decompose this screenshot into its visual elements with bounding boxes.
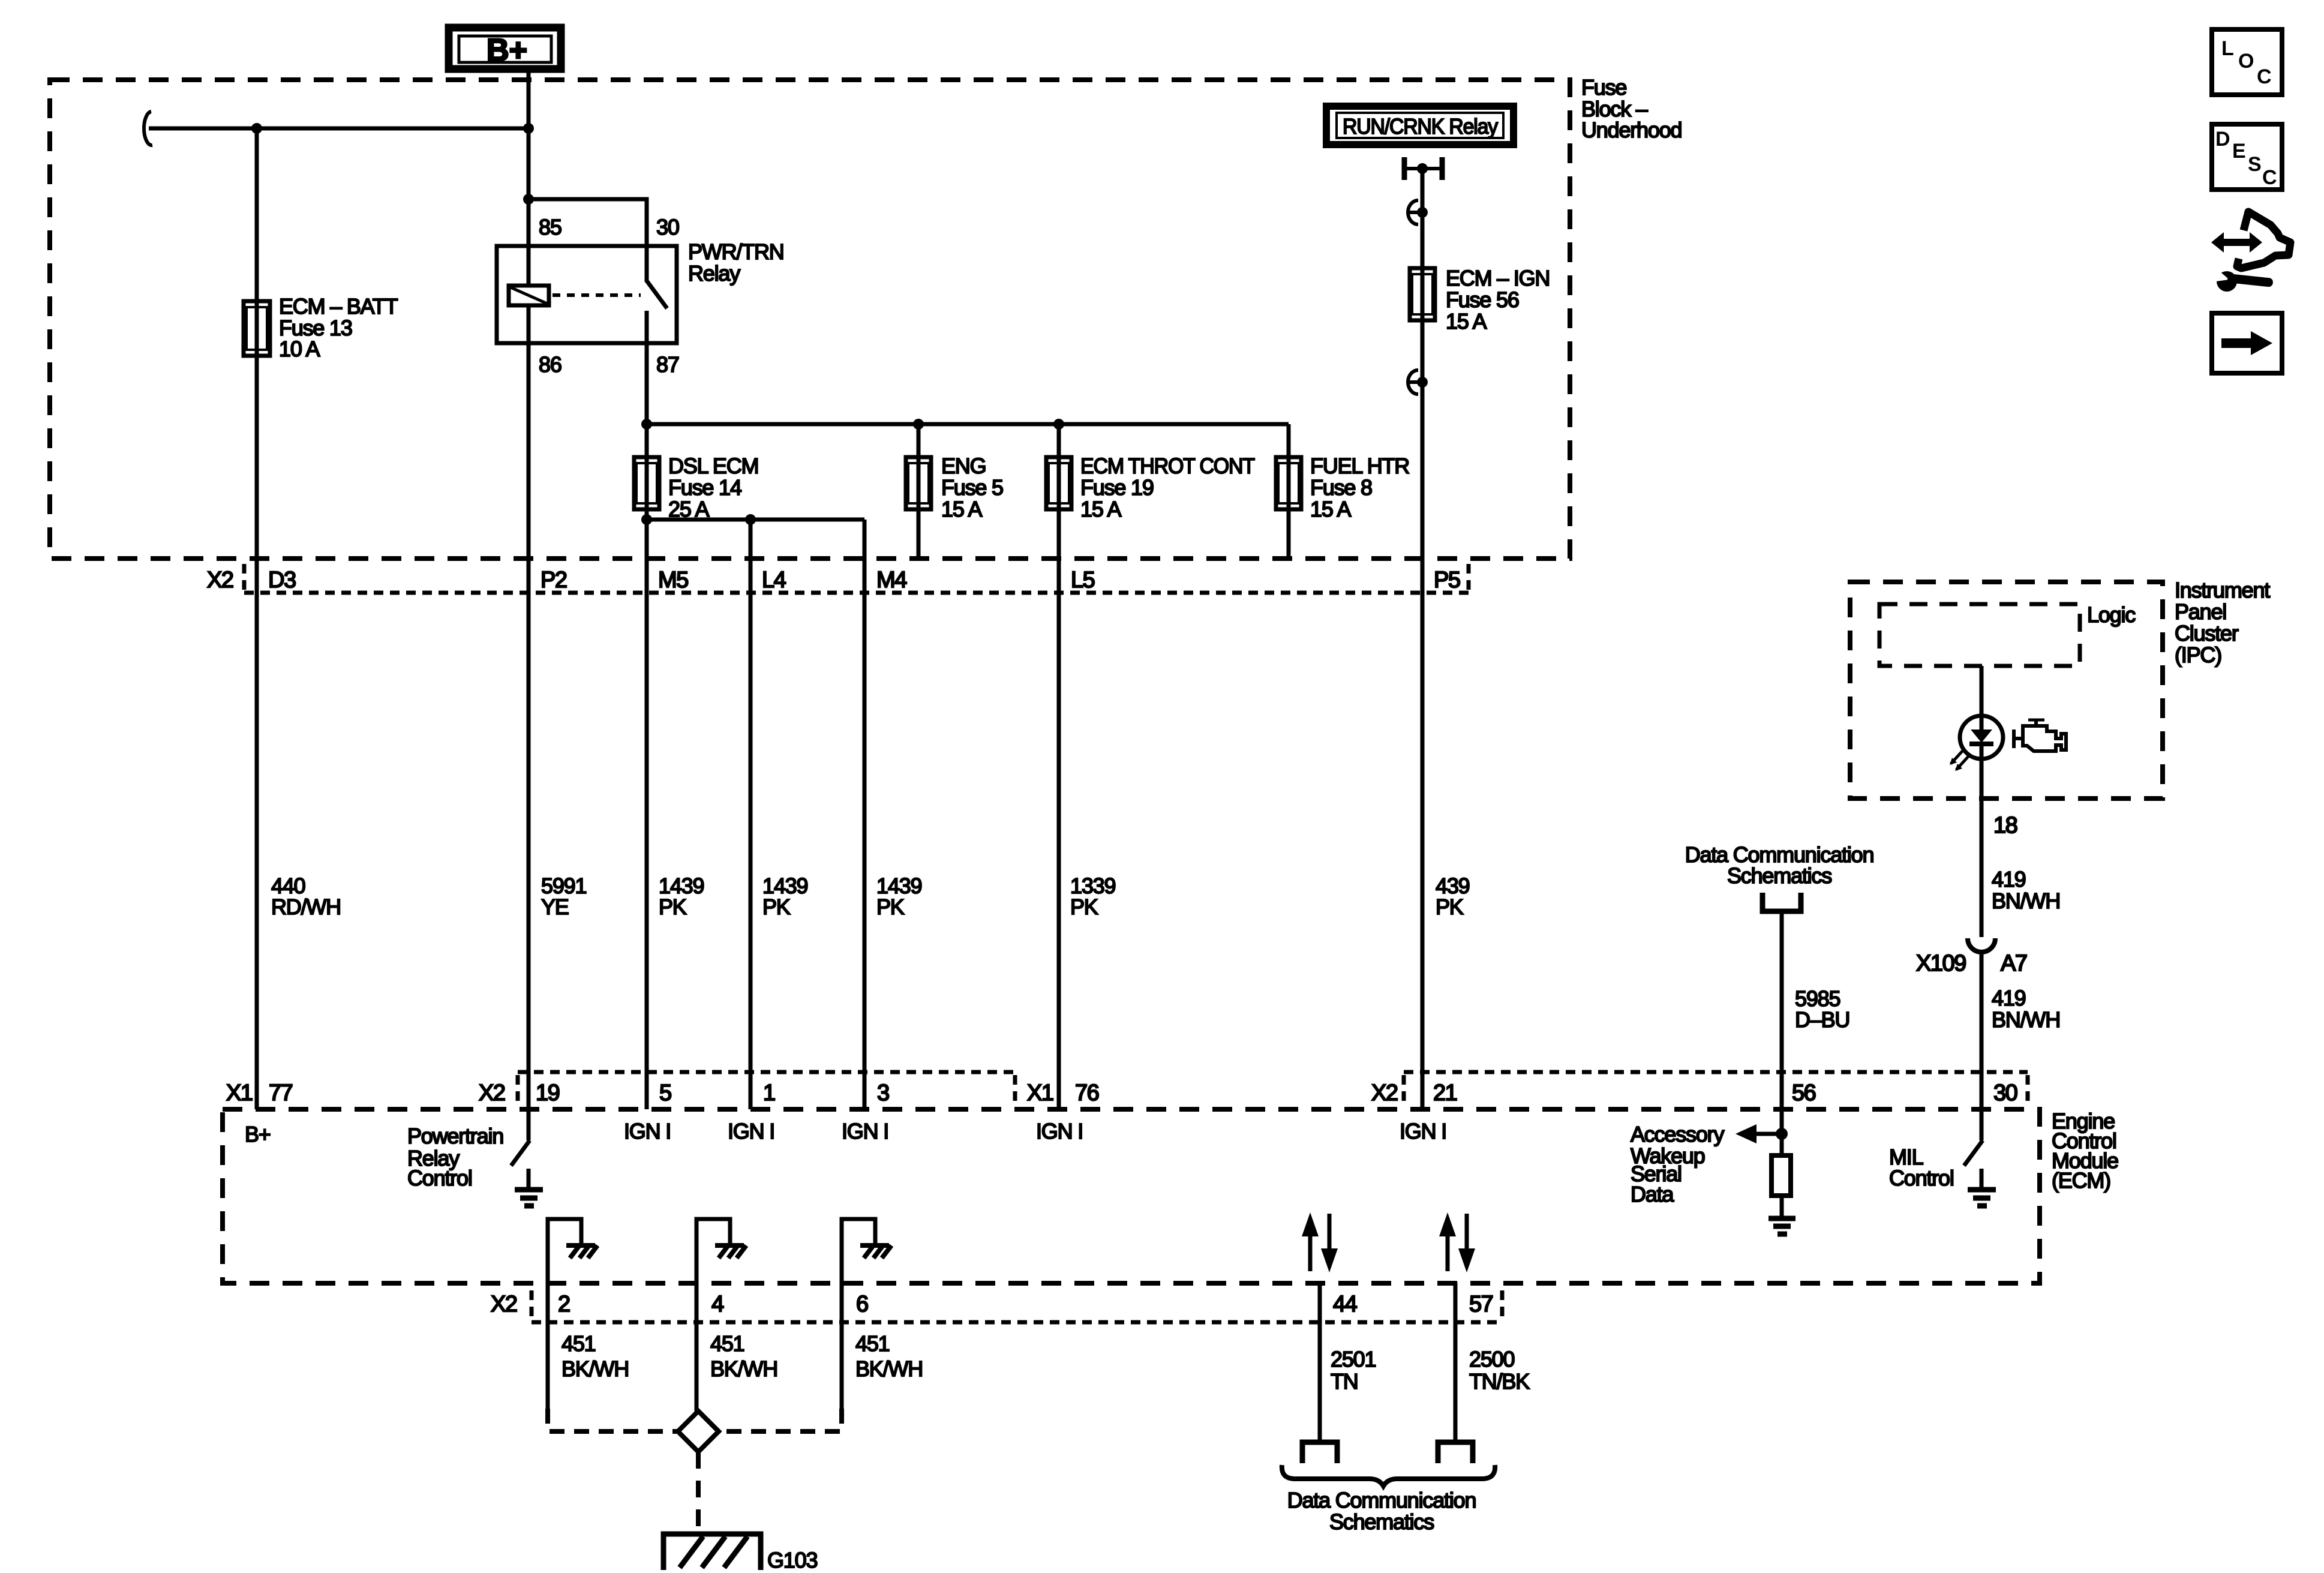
svg-text:A7: A7 (2001, 951, 2027, 976)
svg-text:ECM – BATT: ECM – BATT (279, 294, 398, 319)
wire X109 to ECM pin30 (1980, 952, 1984, 1109)
label wire 1439 PK (M5) (659, 873, 704, 919)
svg-text:X2: X2 (207, 568, 233, 593)
node bus at DSL fuse (641, 419, 652, 430)
svg-text:1: 1 (763, 1080, 775, 1106)
svg-text:Schematics: Schematics (1727, 863, 1831, 888)
svg-text:Data: Data (1631, 1182, 1674, 1206)
wire bus to fuse 14 (645, 424, 649, 459)
relay switch blade (647, 281, 667, 308)
svg-text:Accessory: Accessory (1631, 1122, 1724, 1146)
splice S103 diamond (678, 1411, 719, 1452)
IPC Logic dashed box (1879, 604, 2080, 666)
svg-text:3: 3 (877, 1080, 889, 1106)
svg-text:6: 6 (856, 1292, 868, 1317)
label ENG Fuse 5 15A (941, 454, 1003, 521)
connector tick after P5 (1467, 564, 1471, 591)
resistor pull-down (1771, 1155, 1791, 1196)
svg-text:Control: Control (1889, 1166, 1954, 1190)
wire to fuse 13 (255, 128, 259, 303)
wire relay output down (1421, 169, 1425, 270)
wire coil to pin 86 (527, 305, 531, 343)
node serial data branch (1776, 1128, 1788, 1140)
svg-text:85: 85 (539, 215, 562, 239)
label wire 419 BN/WH upper (1992, 867, 2060, 913)
label Powertrain Relay Control (407, 1124, 503, 1190)
svg-text:Cluster: Cluster (2175, 621, 2239, 646)
svg-text:P5: P5 (1434, 568, 1460, 593)
wire split bar M5 L4 M4 (647, 518, 864, 522)
label ECM-IGN Fuse 56 15A (1446, 266, 1550, 334)
svg-text:ECM THROT CONT: ECM THROT CONT (1080, 454, 1255, 478)
label wire 419 BN/WH lower (1992, 986, 2060, 1032)
label wire 2500 TN/BK (1469, 1347, 1530, 1394)
svg-text:D3: D3 (268, 568, 296, 593)
svg-text:IGN I: IGN I (624, 1119, 671, 1143)
fuse F56 ECM-IGN (1410, 268, 1435, 320)
ECM top connector short-dash line left segment (518, 1070, 1015, 1074)
wire bus to fuse 19 (1057, 424, 1061, 459)
wire L5 THROT fuse down to ECM (1057, 509, 1061, 1109)
node split at M5 (641, 514, 652, 525)
label wire 5985 D-BU (1795, 986, 1849, 1032)
label wire 439 PK (1436, 873, 1470, 919)
ground powertrain driver (515, 1169, 543, 1206)
svg-text:Data Communication: Data Communication (1287, 1488, 1476, 1512)
off-page bracket pin 57 (1438, 1442, 1473, 1463)
svg-text:D–BU: D–BU (1795, 1007, 1849, 1032)
svg-text:PK: PK (659, 894, 687, 919)
svg-text:FUEL HTR: FUEL HTR (1310, 454, 1409, 478)
svg-text:451: 451 (855, 1331, 890, 1356)
connector tick X2 D3 (242, 564, 247, 591)
svg-text:YE: YE (541, 894, 569, 919)
wire fuse feed bus (647, 422, 1289, 427)
label Accessory Wakeup Serial Data (1631, 1122, 1724, 1206)
powertrain relay control switch (511, 1109, 530, 1166)
dashed gather to splice right (720, 1409, 842, 1431)
svg-text:PK: PK (1436, 894, 1464, 919)
relay switch pin30 stub (645, 246, 649, 282)
brace data communication (1282, 1465, 1495, 1486)
ECM top connector short-dash line right segment (1404, 1070, 2028, 1074)
tick after 3 (1013, 1075, 1017, 1107)
ECM bottom connector short-dash line (532, 1320, 1502, 1325)
svg-text:G103: G103 (767, 1548, 817, 1572)
svg-text:X2: X2 (479, 1080, 505, 1106)
ECM internal ground loop pin 6 (842, 1219, 891, 1282)
wire B+ down to bus (527, 69, 531, 199)
label wire 2501 TN (1331, 1347, 1376, 1394)
B+ power symbol (449, 28, 561, 69)
svg-text:TN/BK: TN/BK (1469, 1369, 1530, 1394)
ECM internal ground loop pin 2 (548, 1219, 597, 1282)
svg-text:Relay: Relay (688, 261, 740, 286)
node relay output (1417, 163, 1428, 174)
wire ground pin4 down (695, 1282, 699, 1412)
svg-text:419: 419 (1992, 867, 2026, 891)
svg-text:L4: L4 (762, 568, 786, 593)
svg-text:Underhood: Underhood (1581, 118, 1682, 142)
svg-text:C: C (2257, 65, 2272, 88)
label DSL ECM Fuse 14 25A (668, 454, 758, 521)
svg-text:IGN I: IGN I (1400, 1119, 1446, 1143)
fuse F8 FUEL HTR (1276, 457, 1301, 509)
wire bus corner to fuse 8 (1287, 424, 1291, 459)
MIL control switch (1964, 1109, 1983, 1166)
svg-text:Fuse 8: Fuse 8 (1310, 475, 1372, 500)
label ECM THROT CONT Fuse 19 15A (1080, 454, 1255, 521)
label wire 451 BK/WH (pin2) (562, 1331, 629, 1381)
ground MIL driver (1968, 1169, 1996, 1206)
relay K1 PWR/TRN box (497, 246, 677, 343)
svg-text:PK: PK (762, 894, 791, 919)
wire 2501 pin44 down (1318, 1282, 1322, 1441)
svg-text:Fuse: Fuse (1581, 75, 1626, 100)
fuse F13 ECM-BATT (244, 301, 270, 356)
svg-text:30: 30 (1993, 1080, 2017, 1106)
svg-text:TN: TN (1331, 1369, 1358, 1394)
dashed gather to splice left (548, 1409, 677, 1431)
icon diagnostic wrench arrow (2211, 212, 2290, 292)
wire fuse14 output (645, 509, 649, 520)
node bus at THROT fuse (1053, 419, 1064, 430)
svg-text:18: 18 (1993, 813, 2017, 838)
fuse block underhood dashed box (50, 80, 1570, 559)
label Data Communication Schematics (top) (1685, 842, 1874, 888)
label wire 440 RD/WH (271, 873, 341, 919)
svg-text:IGN I: IGN I (1036, 1119, 1083, 1143)
svg-text:30: 30 (656, 215, 679, 239)
svg-text:Powertrain: Powertrain (407, 1124, 503, 1148)
svg-text:Fuse 56: Fuse 56 (1446, 287, 1519, 312)
wire ground pin6 down (840, 1282, 844, 1409)
svg-text:15 A: 15 A (1446, 309, 1487, 334)
label wire 451 BK/WH (pin4) (710, 1331, 777, 1381)
wire fuse56 down to ECM pin21 (1421, 320, 1425, 1109)
label Engine Control Module (ECM) (2052, 1109, 2118, 1193)
node branch to relay pin30 (523, 194, 534, 205)
wire resistor to ground (1780, 1196, 1784, 1217)
svg-text:RD/WH: RD/WH (271, 894, 341, 919)
MIL indicator LED lamp (1960, 716, 2003, 759)
label MIL Control (1889, 1145, 1954, 1190)
svg-text:15 A: 15 A (1080, 497, 1121, 521)
fuse block bottom connector short-dash line (244, 591, 1473, 595)
svg-text:BK/WH: BK/WH (855, 1356, 923, 1381)
wire L4 down (749, 520, 753, 1109)
svg-text:B+: B+ (245, 1122, 271, 1146)
node bus at ENG fuse (913, 419, 924, 430)
svg-text:O: O (2238, 50, 2254, 73)
svg-text:E: E (2232, 140, 2246, 163)
svg-text:L5: L5 (1071, 568, 1095, 593)
svg-text:X2: X2 (491, 1292, 517, 1317)
svg-text:C: C (2262, 166, 2277, 189)
svg-text:BN/WH: BN/WH (1992, 888, 2060, 913)
label Instrument Panel Cluster (IPC) (2175, 578, 2270, 667)
svg-text:Panel: Panel (2175, 599, 2226, 624)
wire 5991 pin86 down to ECM (527, 343, 531, 1109)
wire M5 down (645, 520, 649, 1109)
ground G103 symbol (663, 1534, 761, 1570)
svg-text:(IPC): (IPC) (2175, 643, 2221, 667)
wire pin87 to fuse bus (645, 343, 649, 424)
svg-text:PK: PK (876, 894, 905, 919)
inline connector hook upper (1407, 200, 1428, 224)
dashed wire splice to G103 (696, 1452, 701, 1534)
svg-text:15 A: 15 A (1310, 497, 1351, 521)
label FUEL HTR Fuse 8 15A (1310, 454, 1409, 521)
svg-text:RUN/CRNK Relay: RUN/CRNK Relay (1343, 114, 1498, 139)
wire 440 fuse13 to ECM pin77 (255, 356, 259, 1109)
svg-text:B+: B+ (487, 33, 527, 68)
engine MIL icon (2014, 720, 2066, 751)
tick X2 19 (516, 1075, 520, 1107)
svg-text:X1: X1 (1027, 1080, 1053, 1106)
relay output terminal brackets (1404, 157, 1442, 180)
wire fuse8 to connector row (1287, 509, 1291, 559)
wire lamp to IPC pin 18 (1980, 759, 1984, 937)
svg-text:2500: 2500 (1469, 1347, 1514, 1371)
wire pin56 to resistor (1780, 1109, 1784, 1157)
svg-text:Control: Control (407, 1166, 472, 1190)
fuse F19 ECM THROT CONT (1046, 457, 1071, 509)
svg-text:Schematics: Schematics (1329, 1509, 1434, 1534)
svg-text:IGN I: IGN I (842, 1119, 888, 1143)
svg-text:2: 2 (558, 1292, 570, 1317)
label wire 1339 PK (1070, 873, 1115, 919)
svg-text:Fuse 5: Fuse 5 (941, 475, 1003, 500)
accessory wakeup arrow (1736, 1124, 1782, 1143)
LED light arrows (1950, 751, 1968, 771)
serial data arrows pin 44 (1302, 1212, 1338, 1272)
inline connector hook lower (1407, 370, 1428, 394)
svg-text:2501: 2501 (1331, 1347, 1376, 1371)
svg-text:15 A: 15 A (941, 497, 982, 521)
label PWR/TRN Relay (688, 239, 784, 286)
svg-text:76: 76 (1075, 1080, 1099, 1106)
svg-text:M5: M5 (658, 568, 688, 593)
svg-text:BK/WH: BK/WH (562, 1356, 629, 1381)
svg-text:L: L (2221, 37, 2234, 60)
wire ground pin2 down (546, 1282, 550, 1409)
inline connector X109 cup (1968, 938, 1995, 952)
svg-text:10 A: 10 A (279, 337, 320, 361)
wire top bus (149, 127, 529, 131)
RUN/CRNK Relay bold box (1326, 106, 1514, 145)
svg-text:BN/WH: BN/WH (1992, 1007, 2060, 1032)
tick after 30 (2026, 1075, 2030, 1107)
off-page bracket to data comm (1762, 893, 1801, 911)
svg-text:PWR/TRN: PWR/TRN (688, 239, 784, 264)
wire M4 down (863, 520, 867, 1109)
wire logic to MIL lamp (1980, 666, 1984, 716)
svg-text:419: 419 (1992, 986, 2026, 1010)
svg-text:451: 451 (562, 1331, 596, 1356)
svg-text:P2: P2 (541, 568, 567, 593)
svg-text:BK/WH: BK/WH (710, 1356, 777, 1381)
wire top bar to pin 30 (529, 199, 647, 246)
relay coil (509, 286, 549, 305)
tick X2 21 (1402, 1075, 1406, 1107)
svg-text:X2: X2 (1371, 1080, 1398, 1106)
svg-text:4: 4 (711, 1292, 724, 1317)
serial data arrows pin 57 (1439, 1212, 1475, 1272)
svg-text:ENG: ENG (941, 454, 986, 478)
svg-text:X109: X109 (1916, 951, 1966, 976)
icon DESC box (2212, 124, 2282, 190)
label Fuse Block Underhood (1581, 75, 1682, 142)
svg-text:44: 44 (1333, 1292, 1358, 1317)
svg-text:19: 19 (536, 1080, 560, 1106)
node bus at B+ (523, 123, 534, 134)
svg-text:Logic: Logic (2087, 602, 2136, 627)
svg-text:(ECM): (ECM) (2052, 1168, 2110, 1193)
label wire 451 BK/WH (pin6) (855, 1331, 923, 1381)
svg-text:21: 21 (1433, 1080, 1457, 1106)
label wire 5991 YE (541, 873, 586, 919)
svg-text:57: 57 (1469, 1292, 1493, 1317)
label ECM-BATT Fuse 13 10A (279, 294, 398, 361)
fuse F5 ENG (906, 457, 931, 509)
label Data Communication Schematics (bottom) (1287, 1488, 1476, 1534)
relay fixed contact to pin 87 (645, 311, 649, 343)
svg-text:PK: PK (1070, 894, 1098, 919)
svg-text:D: D (2215, 128, 2230, 151)
wire hook at left end of bus (144, 112, 152, 145)
svg-text:87: 87 (656, 352, 679, 377)
label wire 1439 PK (L4) (762, 873, 807, 919)
svg-text:5: 5 (659, 1080, 671, 1106)
svg-text:X1: X1 (226, 1080, 253, 1106)
svg-text:Fuse 14: Fuse 14 (668, 475, 741, 500)
svg-text:S: S (2248, 153, 2262, 176)
icon LOC box (2212, 29, 2282, 95)
icon forward arrow box (2212, 313, 2282, 373)
tick after 57 (1500, 1290, 1505, 1320)
wire 2500 pin57 down (1454, 1282, 1458, 1441)
svg-text:Instrument: Instrument (2175, 578, 2270, 602)
node bus to fuse13 (251, 123, 262, 134)
svg-text:451: 451 (710, 1331, 744, 1356)
svg-text:56: 56 (1792, 1080, 1816, 1106)
off-page bracket pin 44 (1302, 1442, 1337, 1463)
ground serial data (1768, 1218, 1795, 1234)
ECM dashed box (223, 1109, 2040, 1283)
IPC dashed box (1850, 582, 2163, 798)
wire 5985 serial data down to ECM pin56 (1780, 911, 1784, 1109)
fuse F14 DSL ECM (634, 457, 659, 509)
wire fuse5 to connector row (917, 509, 921, 559)
svg-text:Fuse 19: Fuse 19 (1080, 475, 1154, 500)
svg-text:77: 77 (269, 1080, 293, 1106)
svg-text:IGN I: IGN I (728, 1119, 774, 1143)
label wire 1439 PK (M4) (876, 873, 921, 919)
node split at L4 (745, 514, 756, 525)
svg-text:DSL ECM: DSL ECM (668, 454, 758, 478)
wire pin85 coil feed (527, 199, 531, 287)
wire bus to fuse 5 (917, 424, 921, 459)
relay actuation dashed link (553, 293, 641, 297)
ECM internal ground loop pin 4 (696, 1219, 746, 1282)
svg-text:M4: M4 (876, 568, 907, 593)
svg-text:ECM – IGN: ECM – IGN (1446, 266, 1550, 290)
tick X2 2 (530, 1290, 534, 1320)
svg-text:86: 86 (539, 352, 562, 377)
